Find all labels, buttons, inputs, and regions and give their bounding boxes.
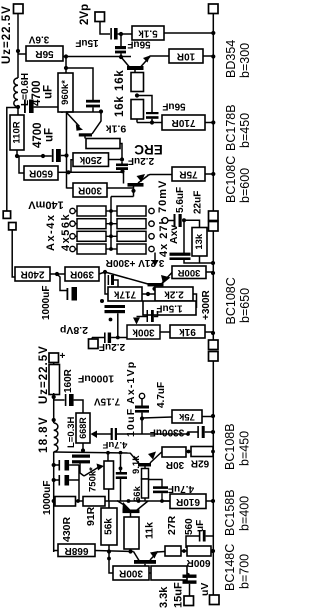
wire bus to 610R	[162, 500, 170, 502]
node rail 273	[211, 271, 215, 275]
transistor Q5 base line	[130, 453, 139, 464]
svg-text:b=300: b=300	[238, 43, 250, 78]
capacitor 2.8Vp plate2	[108, 333, 111, 344]
capacitor 56uF-a plate2	[115, 51, 126, 54]
wire 960k top	[65, 56, 67, 74]
svg-text:91R: 91R	[85, 506, 97, 526]
transistor Q6 emitter line	[117, 501, 125, 506]
wire wiper 668R right	[117, 433, 141, 435]
svg-text:91k: 91k	[179, 326, 196, 337]
wire 650R left leg	[19, 156, 24, 173]
transistor Q5 arrow	[148, 452, 156, 460]
svg-text:+: +	[60, 351, 66, 362]
potentiometer 300k	[127, 325, 160, 339]
node bus 430-91	[76, 499, 80, 503]
wire 62R right	[212, 451, 214, 453]
resistor 27k array 3	[117, 231, 146, 241]
svg-text:56uF: 56uF	[162, 101, 185, 112]
capacitor 2.2uF plate2	[116, 167, 128, 170]
wire 668Rv bottom	[82, 443, 84, 453]
svg-text:1000uF: 1000uF	[77, 373, 114, 385]
wire 1000b left	[54, 399, 65, 401]
node rail 173	[211, 172, 215, 176]
transistor Q4 emitter line	[162, 273, 172, 284]
transistor Q3 emitter line	[138, 176, 148, 184]
node 30R-62R	[187, 450, 191, 454]
svg-text:710R: 710R	[171, 117, 196, 128]
capacitor 4.7uF-in plate1	[135, 406, 149, 409]
capacitor 2.8 top plate2	[105, 310, 126, 313]
transistor Q6 arrow	[123, 502, 131, 510]
node y156 a	[41, 154, 45, 158]
node 717k bottom corner	[100, 299, 104, 303]
node 668Rv bottom	[81, 448, 85, 452]
node 668h-109	[107, 549, 111, 553]
terminal supply second	[49, 353, 59, 363]
svg-text:10uF Ax-1Vp: 10uF Ax-1Vp	[125, 361, 137, 437]
capacitor 4.7uF series plate2	[115, 428, 117, 440]
arrowhead 300R wiper	[152, 260, 159, 267]
wire wiper 668R left	[97, 433, 112, 435]
wire select left stub 2	[75, 223, 77, 225]
node fb 3300	[186, 432, 190, 436]
svg-text:5.6uF: 5.6uF	[175, 187, 186, 213]
svg-text:b=650: b=650	[238, 288, 250, 323]
svg-text:BC158B: BC158B	[223, 489, 237, 536]
node 960k top	[64, 66, 68, 70]
resistor 16k lower	[131, 100, 144, 120]
wire 56k array right 1	[106, 210, 111, 212]
resistor 56k array 3	[77, 231, 106, 241]
node 18.8V	[52, 418, 56, 422]
svg-text:1000uF: 1000uF	[42, 481, 53, 515]
svg-text:b=600: b=600	[238, 168, 250, 203]
wire input left rail	[7, 108, 17, 212]
svg-text:5.1k: 5.1k	[138, 28, 158, 39]
svg-text:300R: 300R	[118, 568, 143, 579]
node rail 451	[211, 450, 215, 454]
wire 1.5u cap stub	[154, 311, 158, 317]
transistor Q3 bar	[128, 183, 144, 187]
wire select left stub 1	[75, 210, 77, 212]
transistor Q7 arrow	[150, 551, 158, 559]
capacitor fb plate2	[111, 275, 114, 285]
transistor Q7 emitter line	[150, 553, 157, 561]
wire 717k-2.2k	[142, 293, 155, 295]
wire y56 horizontal	[63, 56, 131, 58]
node bus 56k 3	[109, 234, 113, 238]
wire left mid rail	[66, 113, 68, 189]
svg-text:960k*: 960k*	[60, 80, 71, 105]
wire 610R right	[206, 500, 213, 502]
wire 300R2 right	[206, 271, 213, 273]
capacitor 5.6uF plate2	[179, 214, 182, 227]
capacitor 560uF plate1	[199, 530, 201, 542]
wire 240R-390R	[50, 273, 65, 275]
capacitor 1.5u plate1	[147, 310, 149, 322]
wire 560 cap left	[186, 536, 199, 548]
node feedback	[103, 270, 107, 274]
wire input B down	[12, 230, 15, 277]
wire cap56b down	[151, 119, 153, 123]
wire 56k bottom leg	[109, 545, 115, 573]
wire Q7 down	[144, 564, 146, 568]
capacitor E1 thin	[59, 460, 61, 471]
svg-text:240R: 240R	[20, 269, 45, 280]
wire bypass top	[66, 68, 93, 100]
resistor 11k	[124, 517, 139, 549]
capacitor 4.7uF series plate1	[111, 428, 113, 440]
wire E vertical	[78, 465, 80, 501]
node 5.6-22 junction	[182, 218, 186, 222]
node rail 415	[211, 414, 215, 418]
capacitor 960k bypass plate2	[86, 105, 100, 108]
capacitor 1000uF-a thick	[72, 287, 78, 301]
capacitor 4.7uF-in plate2	[135, 410, 149, 413]
wire 300k-91k	[160, 331, 170, 333]
transistor Q7 base diag	[134, 552, 140, 561]
wire Q4 to 2.2k	[154, 286, 156, 289]
svg-text:13k: 13k	[194, 233, 205, 250]
wire cap to rail	[61, 155, 67, 157]
arrow trimmer 750k	[84, 468, 98, 477]
svg-text:BC108C: BC108C	[224, 277, 238, 324]
svg-text:4.7uF: 4.7uF	[102, 439, 127, 450]
wire 13k bottom	[199, 256, 201, 263]
node Q4 bottom	[152, 287, 156, 291]
wire cap out feed	[187, 573, 190, 575]
svg-text:2.2k: 2.2k	[164, 289, 184, 300]
wire Q1 to 10R	[150, 55, 170, 57]
terminal right top	[209, 4, 219, 14]
wire Q6 base	[130, 513, 132, 517]
wire cap out down	[189, 584, 191, 596]
node Q3 collector	[131, 189, 135, 193]
node bus 127	[127, 499, 131, 503]
wire bypass bottom	[92, 107, 94, 112]
svg-text:BC148C: BC148C	[223, 544, 237, 591]
svg-text:300R: 300R	[178, 267, 201, 278]
svg-text:3.6V: 3.6V	[28, 34, 49, 45]
wire 250k left	[71, 160, 73, 173]
transistor Q1 arrow	[143, 56, 150, 63]
node bus 162	[160, 499, 164, 503]
wire cap4700 right	[34, 107, 62, 113]
capacitor 1000uF-b thick	[69, 394, 74, 406]
terminal mid A	[209, 211, 219, 221]
resistor 610R	[170, 494, 206, 509]
resistor 27k array 1	[117, 206, 146, 216]
svg-text:BC108C: BC108C	[224, 156, 238, 203]
svg-text:2.2uF: 2.2uF	[99, 341, 125, 352]
terminal select left 2	[70, 221, 75, 226]
transistor Q1 bar	[127, 66, 144, 70]
terminal mid D	[209, 352, 219, 362]
node bus 56k 2	[109, 222, 113, 226]
transistor Q2 arrow	[76, 124, 83, 131]
node 160R bottom	[52, 395, 56, 399]
wire 56k array right 2	[106, 223, 111, 225]
wire 30R-62R	[186, 451, 191, 453]
capacitor 15uF-out plate1	[183, 575, 197, 578]
resistor 9.1k box	[86, 139, 120, 149]
resistor stack lower	[142, 479, 149, 498]
resistor 91R box	[83, 497, 105, 507]
wire 2.2uF to Q3	[123, 171, 125, 183]
node 960k bottom	[99, 109, 103, 113]
svg-text:560: 560	[184, 518, 195, 535]
wire circ to cap	[168, 220, 174, 222]
wire 27k array left 4	[111, 248, 117, 250]
node rail 122	[211, 120, 215, 124]
wire 56k array right 4	[106, 248, 111, 250]
node cap 4700uF top	[16, 105, 20, 109]
resistor 960k*	[58, 73, 73, 112]
wire 27k array left 3	[111, 235, 117, 237]
capacitor E1 thick	[65, 460, 70, 471]
svg-text:Axv: Axv	[168, 225, 180, 244]
node rail 480	[52, 478, 56, 482]
svg-text:16k: 16k	[114, 69, 126, 91]
capacitor 1.5uF	[143, 301, 196, 315]
resistor 56k array 2	[77, 219, 106, 229]
wire 960k bottom row	[66, 111, 101, 113]
wire right rail mid	[212, 231, 214, 340]
terminal select right 2	[149, 221, 154, 226]
wire 668Rh right	[95, 551, 134, 552]
svg-text:10R: 10R	[176, 51, 195, 62]
wire 16k junction right	[137, 96, 152, 113]
resistor stack upper	[142, 469, 149, 480]
svg-text:75R: 75R	[179, 169, 198, 180]
capacitor big plate2	[72, 460, 90, 463]
wire Q3 to 75R	[147, 175, 172, 176]
inductor L=0.3H	[54, 423, 58, 452]
node bus left	[52, 499, 56, 503]
terminal select left 1	[70, 208, 75, 213]
resistor 600R box	[187, 546, 211, 556]
node 750k cap	[119, 467, 123, 471]
node rail 433	[211, 430, 215, 434]
svg-text:750k*: 750k*	[88, 467, 99, 492]
wire right rail low	[212, 361, 214, 595]
wire base row y172	[69, 171, 123, 173]
wire array bus	[110, 197, 112, 250]
terminal input A	[3, 211, 10, 218]
wire right rail upper	[212, 14, 214, 212]
resistor 56k	[101, 508, 117, 545]
svg-text:3300uF: 3300uF	[150, 427, 184, 438]
svg-text:668R: 668R	[64, 545, 89, 556]
svg-text:b=450: b=450	[238, 431, 251, 466]
wire 650R right leg	[58, 171, 69, 173]
transistor Q6 bar	[123, 510, 140, 514]
wire 56uF to base wire	[120, 53, 122, 57]
resistor 10R	[169, 49, 203, 63]
resistor 240R	[15, 267, 50, 281]
terminal input B	[9, 223, 16, 230]
svg-text:ERC: ERC	[134, 142, 163, 157]
node y56 base	[119, 55, 123, 59]
svg-text:75k: 75k	[178, 411, 195, 422]
resistor 56k array 4	[77, 244, 106, 254]
svg-text:uF: uF	[43, 85, 55, 99]
node y56 left	[64, 54, 68, 58]
svg-text:9.1k: 9.1k	[131, 455, 142, 474]
svg-text:2.8Vp: 2.8Vp	[60, 324, 88, 336]
arrow wiper 668R	[91, 431, 98, 439]
node 11k bottom	[128, 549, 132, 553]
svg-text:610R: 610R	[175, 496, 200, 507]
wire 600R right	[211, 550, 213, 552]
resistor 56k array 1	[77, 206, 106, 216]
svg-text:BC108B: BC108B	[223, 423, 237, 470]
svg-text:18.8V: 18.8V	[38, 416, 50, 453]
terminal input 2Vp	[95, 12, 105, 22]
terminal select left 4	[70, 246, 75, 251]
svg-text:717k: 717k	[113, 289, 136, 300]
capacitor 3300uF plate1	[197, 426, 199, 438]
wire 75R to rail	[205, 173, 213, 175]
svg-text:Uz=22.5V: Uz=22.5V	[1, 5, 13, 64]
node y122	[150, 120, 154, 124]
wire 56k top	[108, 501, 110, 508]
node 2.8Vp cap	[116, 336, 120, 340]
svg-text:70mV: 70mV	[157, 180, 169, 213]
wire 1000b right	[74, 400, 83, 413]
node 250k cap	[120, 157, 124, 161]
node bus 138	[137, 499, 141, 503]
capacitor 1000uF-a thin	[67, 288, 69, 300]
svg-text:11k: 11k	[144, 522, 156, 539]
wire bigcap down	[80, 463, 84, 476]
svg-text:56k: 56k	[104, 518, 115, 535]
node rail 262	[211, 261, 215, 265]
wire 91k right	[205, 331, 213, 333]
resistor 91k	[170, 325, 205, 338]
wire cap to 13k top	[184, 220, 200, 227]
terminal out A	[184, 596, 194, 606]
wire 110R bottom	[16, 150, 18, 156]
capacitor 22uF plate2	[170, 257, 191, 260]
capacitor 2.8Vp plate1	[104, 333, 106, 344]
resistor 300R second	[172, 266, 206, 279]
wire 22uF bottom	[184, 260, 213, 263]
resistor 16k upper	[131, 73, 144, 92]
wire 300R1 left	[67, 187, 74, 189]
wire 15uF to 5.1k	[118, 33, 132, 35]
capacitor 22uF plate1	[170, 253, 191, 256]
svg-text:BD354: BD354	[224, 40, 238, 78]
capacitor 960k bypass plate1	[86, 100, 100, 103]
wire 9.1k box stub	[120, 144, 122, 160]
resistor 668R second	[58, 544, 95, 557]
wire 11k bottom	[130, 549, 132, 552]
terminal select right 1	[149, 208, 154, 213]
svg-text:15uF: 15uF	[173, 582, 185, 608]
wire E1 right	[69, 464, 79, 466]
wire Q3 collector down	[133, 186, 135, 197]
svg-text:b=700: b=700	[238, 554, 251, 589]
capacitor 56uF-b plate2	[146, 116, 159, 119]
svg-text:56uF: 56uF	[127, 39, 150, 50]
resistor 650R	[24, 166, 58, 180]
node rail 57	[211, 54, 215, 58]
capacitor E2 thin	[59, 475, 61, 486]
svg-text:4.7uF: 4.7uF	[168, 483, 194, 494]
terminal out B	[210, 595, 220, 605]
wire 2.8Vp left	[92, 337, 104, 339]
node cap750 tap	[119, 451, 123, 455]
transistor Q1 emitter with arrow	[141, 57, 150, 67]
wire 560 cap right	[206, 535, 213, 537]
node rail-156	[64, 153, 68, 157]
capacitor 4.7uF-b plate1	[153, 486, 168, 489]
node rail-56R	[16, 49, 20, 53]
wire 47b out	[161, 493, 163, 501]
transistor Q2 emitter line	[67, 113, 80, 127]
wire circ to cap	[141, 399, 143, 406]
wire Q7 to 27R box	[157, 551, 165, 554]
svg-text:2Vp: 2Vp	[79, 4, 91, 25]
svg-text:390R: 390R	[69, 269, 94, 280]
wire E1 wires	[54, 464, 59, 466]
resistor 5.1k	[132, 26, 164, 40]
resistor 3.3k box	[151, 566, 187, 580]
wire y122 row	[137, 122, 162, 124]
resistor 390R	[65, 267, 99, 281]
node between 16k	[135, 93, 139, 97]
wire 300R1 right	[107, 187, 134, 189]
resistor 160R	[49, 365, 60, 395]
transistor Q5 bar	[138, 463, 151, 467]
arrow wiper 300k	[133, 318, 140, 325]
wire E2 wires	[54, 479, 59, 481]
svg-text:1000uF: 1000uF	[41, 286, 52, 320]
wire y196	[111, 196, 134, 198]
svg-text:2.2uF: 2.2uF	[128, 155, 154, 166]
node 650R right	[66, 170, 70, 174]
wire 3300 link	[141, 432, 198, 434]
resistor 56R	[26, 46, 63, 61]
resistor 27k array 2	[117, 219, 146, 229]
wire 75k right	[202, 416, 213, 418]
wire 56k array right 3	[106, 235, 111, 237]
resistor 668R vertical	[76, 413, 90, 443]
capacitor 4.7uF-b plate2	[153, 491, 168, 494]
wire cap750 feed	[120, 455, 122, 472]
wire 2.8Vp right	[111, 337, 118, 339]
resistor 62R box	[191, 447, 213, 457]
svg-text:uV: uV	[199, 583, 211, 596]
resistor 717k	[108, 287, 142, 301]
wire Q5 collector	[144, 467, 146, 469]
transistor Q4 bar	[148, 283, 164, 286]
transistor Q4 arrow	[161, 275, 171, 284]
wire feedback down	[105, 272, 108, 294]
wire 250k right	[109, 159, 123, 161]
node input low	[140, 416, 144, 420]
capacitor 560uF plate2	[203, 530, 206, 542]
resistor 75R	[172, 167, 205, 181]
wire base diagonal	[105, 272, 148, 284]
svg-text:b=400: b=400	[238, 496, 251, 531]
wire 16k bottom	[136, 119, 138, 123]
wire rail left top	[17, 14, 19, 79]
node bus 56k 4	[109, 247, 113, 251]
terminal select right 4	[149, 246, 154, 251]
svg-text:3.3k: 3.3k	[158, 586, 170, 608]
